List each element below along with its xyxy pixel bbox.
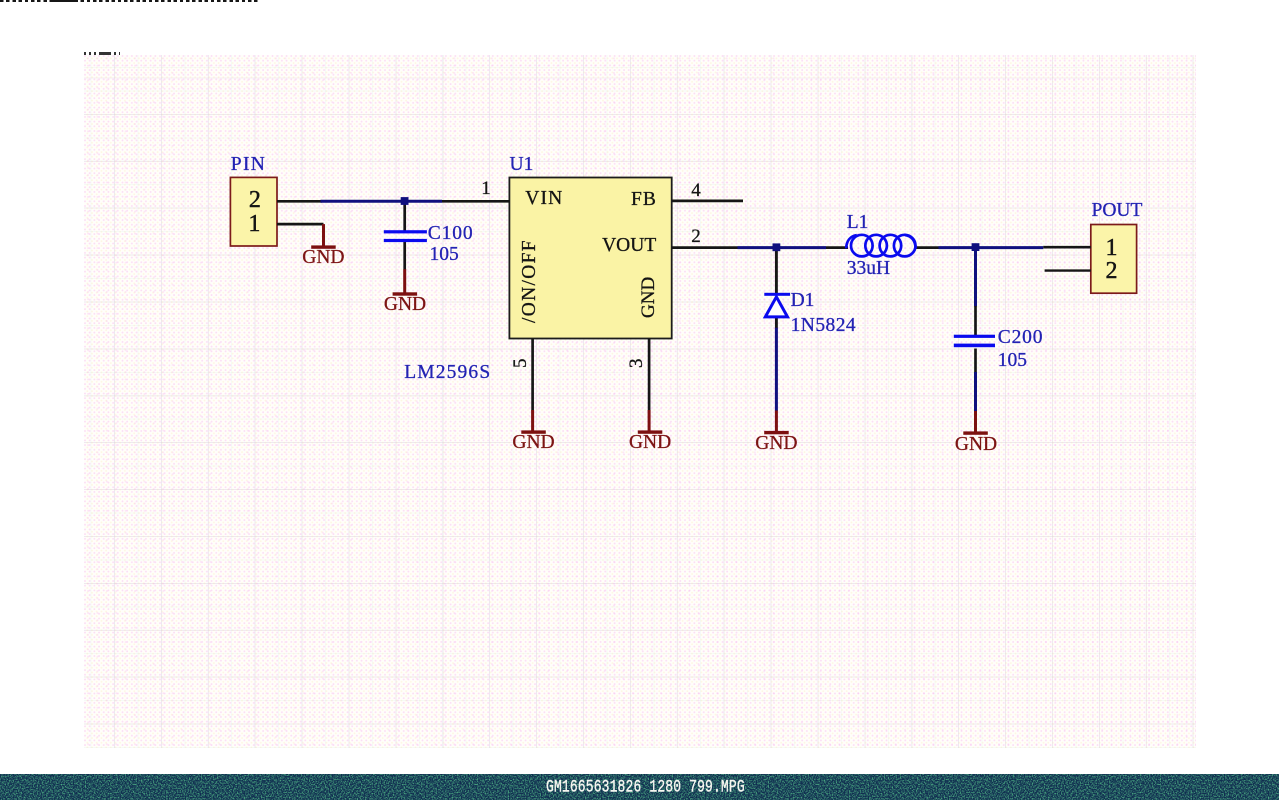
bottom video info bar <box>0 774 1279 800</box>
label 33uH <box>847 259 890 279</box>
diode D1 symbol (schottky) <box>764 293 790 317</box>
pin name GND (rotated) <box>639 277 658 318</box>
pin name VIN <box>525 189 563 209</box>
label GND under U1 pin5 <box>512 433 554 453</box>
label 1N5824 <box>791 316 857 336</box>
wire U1 pin1 stub <box>442 200 509 203</box>
top edge artifact dashes <box>0 0 259 2</box>
wire C200 upper black lead <box>974 306 977 336</box>
connector POUT body <box>1091 225 1137 294</box>
op-amp U1 body (LM2596S) <box>509 178 671 339</box>
bottom bar caption <box>546 778 745 796</box>
wire D1 ground net (navy) <box>775 328 778 411</box>
label GND under PIN <box>302 248 344 268</box>
PIN pad number 1 <box>248 212 260 236</box>
ground under U1 pin5 <box>521 410 546 434</box>
sheet top-left tiny marks <box>84 52 120 55</box>
wire U1 pin4 FB stub <box>672 200 743 203</box>
wire C100 top lead <box>403 203 406 231</box>
inductor L1 coil <box>846 235 915 257</box>
ground under D1 <box>764 411 789 435</box>
pin number 2 (U1) <box>691 227 701 246</box>
wire VOUT net right (navy) <box>939 246 1044 249</box>
PIN pad number 2 <box>249 188 261 212</box>
wire POUT pin1 stub <box>1043 246 1091 249</box>
pin number 4 (U1) <box>691 181 701 200</box>
pin name FB <box>631 190 657 210</box>
pin name /ON/OFF (rotated) <box>520 239 540 323</box>
label U1 <box>510 155 534 175</box>
label PIN <box>231 155 266 175</box>
label LM2596S <box>404 363 491 383</box>
label POUT <box>1092 201 1143 221</box>
junction at D1 tap <box>773 243 781 251</box>
label GND under C100 <box>384 295 426 315</box>
label C100 <box>428 224 474 244</box>
wire L1 right stub <box>916 246 939 249</box>
wire U1 pin3 stub <box>648 339 651 411</box>
wire POUT pin2 stub <box>1045 269 1091 271</box>
wire U1 pin5 stub <box>531 339 534 411</box>
wire input net (navy) <box>321 200 443 203</box>
label 105 (C100 value) <box>430 245 459 265</box>
connector PIN body <box>230 177 277 246</box>
ground under U1 pin3 <box>638 410 663 434</box>
wire PIN pin1 stub <box>277 223 324 226</box>
pin number 1 (U1) <box>481 179 491 198</box>
pin number 3 (U1, rotated) <box>627 358 646 368</box>
ground under C100 <box>393 269 418 295</box>
wire VOUT net left (navy) <box>738 246 827 249</box>
wire D1 top lead <box>775 249 778 294</box>
wire C200 top lead (navy) <box>974 249 977 307</box>
pin name VOUT <box>602 236 656 256</box>
POUT pad number 1 <box>1106 236 1118 260</box>
capacitor C100 plates <box>384 230 427 242</box>
wire D1 lower black stub <box>775 317 778 328</box>
wire L1 left stub <box>826 246 848 249</box>
POUT pad number 2 <box>1106 259 1118 283</box>
label D1 <box>791 291 815 311</box>
label L1 <box>847 213 869 233</box>
wire C200 ground net (navy) <box>974 372 977 412</box>
label GND under U1 pin3 <box>629 433 671 453</box>
schematic sheet with grid <box>84 55 1196 748</box>
junction at C100 tap <box>401 197 409 205</box>
label GND under C200 <box>955 435 997 455</box>
wire C200 lower black lead <box>974 349 977 373</box>
label 105 (C200 value) <box>998 351 1027 371</box>
top edge artifact long dash <box>52 0 75 2</box>
wire PIN pin2 stub <box>277 200 322 203</box>
label GND under D1 <box>755 434 797 454</box>
ground under C200 <box>963 411 988 435</box>
label C200 <box>998 328 1043 348</box>
capacitor C200 plates <box>954 335 995 348</box>
junction at C200 tap <box>972 243 980 251</box>
ground under PIN pin1 <box>311 224 336 249</box>
wire U1 pin2 VOUT stub <box>672 246 738 249</box>
wire C100 bottom lead <box>403 242 406 270</box>
pin number 5 (U1, rotated) <box>511 358 530 368</box>
